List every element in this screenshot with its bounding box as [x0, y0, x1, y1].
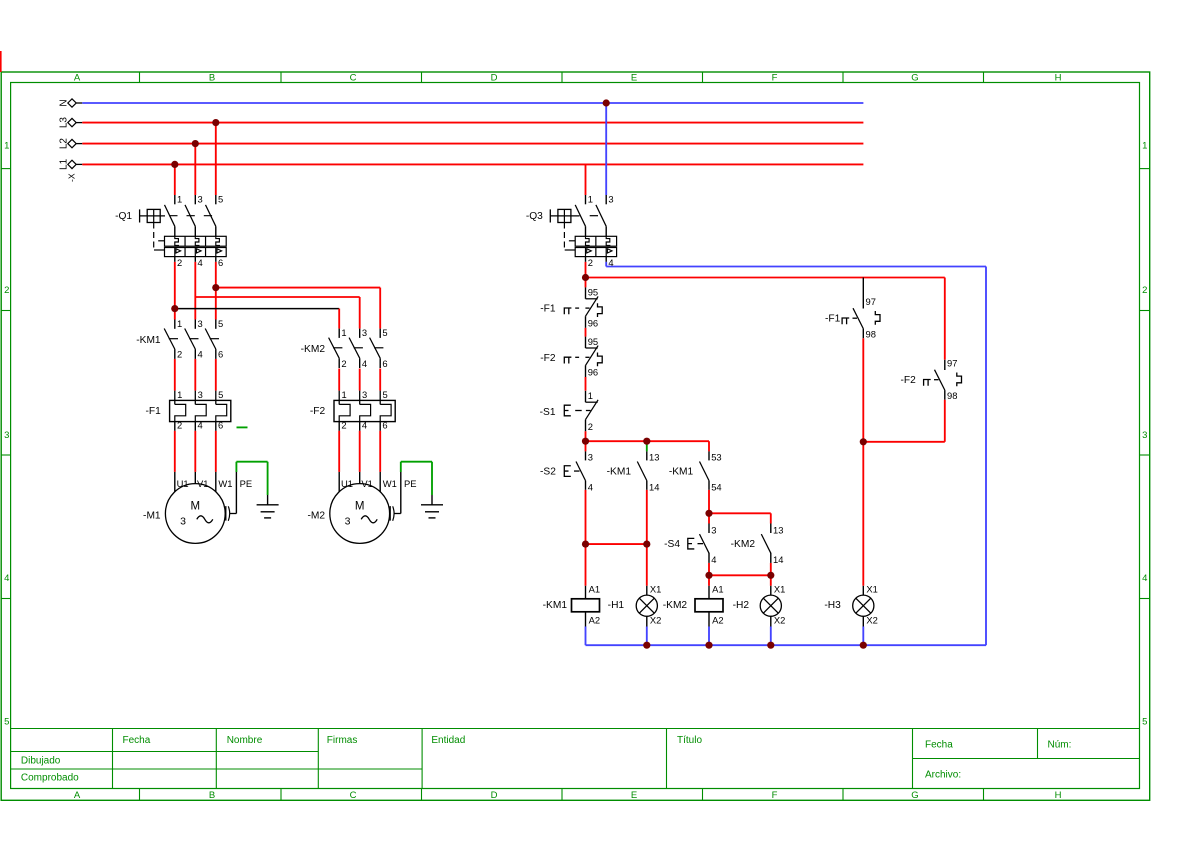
svg-text:A: A	[74, 790, 81, 801]
svg-text:97: 97	[866, 296, 876, 307]
svg-text:Dibujado: Dibujado	[21, 755, 61, 766]
svg-text:-KM2: -KM2	[731, 539, 756, 550]
svg-text:6: 6	[218, 257, 223, 268]
svg-text:G: G	[911, 73, 918, 84]
svg-text:98: 98	[947, 390, 957, 401]
svg-text:-KM1: -KM1	[607, 467, 632, 478]
svg-text:2: 2	[177, 420, 182, 431]
svg-text:-M1: -M1	[143, 511, 161, 522]
svg-text:X1: X1	[774, 584, 785, 595]
svg-text:-H2: -H2	[733, 600, 750, 611]
svg-text:13: 13	[773, 524, 783, 535]
svg-text:E: E	[631, 73, 637, 84]
svg-text:5: 5	[1142, 717, 1147, 728]
svg-text:-Q1: -Q1	[115, 211, 132, 222]
svg-text:96: 96	[588, 318, 598, 329]
svg-text:-KM1: -KM1	[669, 467, 694, 478]
svg-text:95: 95	[588, 336, 598, 347]
svg-text:U1: U1	[341, 478, 353, 489]
svg-text:1: 1	[177, 318, 182, 329]
svg-text:Entidad: Entidad	[431, 735, 465, 746]
svg-text:95: 95	[588, 287, 598, 298]
svg-text:Núm:: Núm:	[1048, 739, 1072, 750]
svg-text:Título: Título	[677, 735, 702, 746]
svg-text:3: 3	[4, 430, 9, 441]
svg-text:X1: X1	[650, 584, 661, 595]
svg-text:5: 5	[383, 389, 388, 400]
svg-text:-S4: -S4	[664, 539, 680, 550]
svg-text:4: 4	[608, 257, 613, 268]
svg-text:1: 1	[341, 327, 346, 338]
svg-text:V1: V1	[361, 478, 372, 489]
svg-text:L1: L1	[59, 158, 70, 170]
svg-text:A2: A2	[712, 615, 723, 626]
svg-text:3: 3	[362, 389, 367, 400]
svg-text:-F2: -F2	[540, 353, 556, 364]
svg-text:A1: A1	[712, 584, 723, 595]
svg-text:-KM1: -KM1	[136, 335, 161, 346]
svg-text:-S2: -S2	[540, 467, 556, 478]
svg-text:53: 53	[711, 452, 721, 463]
svg-text:-KM2: -KM2	[301, 344, 326, 355]
svg-text:6: 6	[382, 358, 387, 369]
svg-text:G: G	[911, 790, 918, 801]
svg-text:D: D	[491, 73, 498, 84]
svg-text:X2: X2	[774, 615, 785, 626]
svg-text:-H1: -H1	[608, 600, 625, 611]
svg-text:Firmas: Firmas	[327, 735, 358, 746]
svg-text:-X: -X	[67, 173, 77, 182]
svg-text:1: 1	[177, 194, 182, 205]
svg-text:3: 3	[198, 194, 203, 205]
svg-text:4: 4	[362, 420, 367, 431]
svg-text:4: 4	[198, 349, 203, 360]
svg-text:6: 6	[382, 420, 387, 431]
svg-text:2: 2	[177, 257, 182, 268]
svg-text:X1: X1	[866, 584, 877, 595]
svg-text:3: 3	[180, 515, 186, 527]
svg-text:3: 3	[588, 452, 593, 463]
svg-text:C: C	[350, 790, 357, 801]
svg-text:1: 1	[1142, 141, 1147, 152]
svg-text:1: 1	[4, 141, 9, 152]
svg-text:5: 5	[218, 318, 223, 329]
svg-text:3: 3	[1142, 430, 1147, 441]
svg-text:6: 6	[218, 420, 223, 431]
svg-text:3: 3	[362, 327, 367, 338]
svg-text:14: 14	[773, 554, 783, 565]
svg-text:PE: PE	[404, 478, 417, 489]
svg-text:5: 5	[218, 389, 223, 400]
svg-text:2: 2	[1142, 285, 1147, 296]
svg-text:-KM2: -KM2	[663, 600, 688, 611]
svg-text:1: 1	[177, 389, 182, 400]
svg-text:-H3: -H3	[824, 600, 841, 611]
svg-text:-F2: -F2	[310, 406, 326, 417]
svg-text:Nombre: Nombre	[227, 735, 263, 746]
svg-text:-F1: -F1	[825, 314, 841, 325]
svg-text:1: 1	[588, 390, 593, 401]
svg-text:98: 98	[866, 329, 876, 340]
svg-text:5: 5	[382, 327, 387, 338]
svg-text:4: 4	[4, 573, 9, 584]
svg-text:C: C	[350, 73, 357, 84]
svg-text:-M2: -M2	[307, 511, 325, 522]
svg-text:3: 3	[711, 524, 716, 535]
svg-text:M: M	[355, 501, 365, 513]
svg-text:Fecha: Fecha	[925, 739, 953, 750]
svg-text:A: A	[74, 73, 81, 84]
svg-text:6: 6	[218, 349, 223, 360]
svg-text:Archivo:: Archivo:	[925, 770, 961, 781]
svg-text:H: H	[1055, 790, 1062, 801]
svg-text:5: 5	[218, 194, 223, 205]
svg-text:V1: V1	[197, 478, 208, 489]
svg-text:-KM1: -KM1	[543, 600, 568, 611]
svg-text:X2: X2	[650, 615, 661, 626]
svg-text:4: 4	[1142, 573, 1147, 584]
svg-text:2: 2	[177, 349, 182, 360]
svg-text:4: 4	[362, 358, 367, 369]
svg-text:4: 4	[711, 554, 716, 565]
svg-text:A2: A2	[589, 615, 600, 626]
svg-text:A1: A1	[589, 584, 600, 595]
svg-text:W1: W1	[383, 478, 397, 489]
svg-text:L3: L3	[59, 117, 70, 129]
svg-text:M: M	[191, 501, 201, 513]
svg-text:-F1: -F1	[146, 406, 162, 417]
svg-text:5: 5	[4, 717, 9, 728]
svg-text:Fecha: Fecha	[123, 735, 151, 746]
svg-text:54: 54	[711, 482, 721, 493]
svg-text:4: 4	[588, 482, 593, 493]
svg-text:B: B	[209, 790, 215, 801]
svg-text:2: 2	[341, 358, 346, 369]
svg-text:L2: L2	[59, 138, 70, 150]
svg-text:-F1: -F1	[540, 304, 556, 315]
svg-text:2: 2	[4, 285, 9, 296]
svg-text:-F2: -F2	[901, 375, 917, 386]
svg-text:PE: PE	[240, 478, 253, 489]
svg-text:2: 2	[341, 420, 346, 431]
svg-text:X2: X2	[866, 615, 877, 626]
svg-text:F: F	[772, 73, 778, 84]
svg-text:3: 3	[345, 515, 351, 527]
svg-text:-S1: -S1	[540, 407, 556, 418]
svg-text:97: 97	[947, 358, 957, 369]
svg-text:13: 13	[649, 452, 659, 463]
svg-text:4: 4	[198, 257, 203, 268]
svg-text:N: N	[59, 99, 70, 106]
svg-text:1: 1	[588, 194, 593, 205]
svg-text:W1: W1	[218, 478, 232, 489]
svg-text:B: B	[209, 73, 215, 84]
svg-text:3: 3	[198, 318, 203, 329]
svg-text:Comprobado: Comprobado	[21, 772, 79, 783]
svg-text:H: H	[1055, 73, 1062, 84]
svg-text:F: F	[772, 790, 778, 801]
svg-text:3: 3	[198, 389, 203, 400]
svg-text:2: 2	[588, 257, 593, 268]
svg-text:D: D	[491, 790, 498, 801]
svg-text:96: 96	[588, 367, 598, 378]
svg-text:2: 2	[588, 421, 593, 432]
svg-text:U1: U1	[177, 478, 189, 489]
svg-text:14: 14	[649, 482, 659, 493]
svg-text:1: 1	[342, 389, 347, 400]
svg-text:4: 4	[198, 420, 203, 431]
svg-text:-Q3: -Q3	[526, 211, 543, 222]
svg-text:3: 3	[608, 194, 613, 205]
svg-text:E: E	[631, 790, 637, 801]
